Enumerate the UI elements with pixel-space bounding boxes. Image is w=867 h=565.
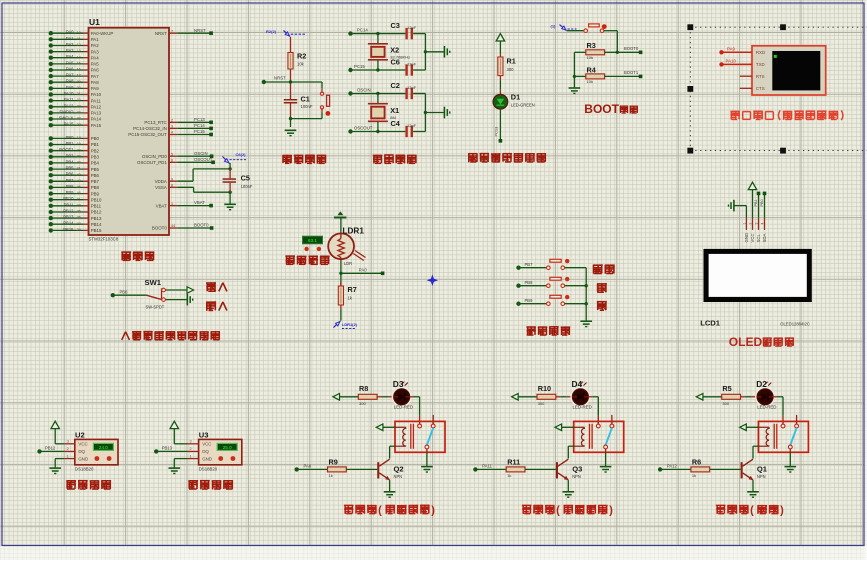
- svg-text:10k: 10k: [297, 61, 305, 66]
- svg-text:PA5: PA5: [91, 62, 100, 67]
- svg-text:D3: D3: [393, 379, 404, 389]
- svg-text:33: 33: [77, 104, 81, 108]
- svg-text:3: 3: [755, 223, 759, 225]
- svg-text:DS18B20: DS18B20: [75, 466, 94, 471]
- svg-text:BOOT0: BOOT0: [624, 46, 639, 51]
- svg-text:PA15: PA15: [64, 122, 75, 127]
- svg-text:40: 40: [77, 161, 81, 165]
- svg-text:12pF: 12pF: [407, 25, 417, 30]
- svg-text:PA9: PA9: [66, 85, 74, 90]
- svg-text:PC14-OSC32_IN: PC14-OSC32_IN: [133, 126, 167, 131]
- svg-text:300: 300: [507, 67, 515, 72]
- svg-text:1k: 1k: [507, 473, 511, 478]
- svg-text:U1: U1: [89, 17, 100, 27]
- svg-text:NRST: NRST: [194, 28, 206, 33]
- svg-text:NPN: NPN: [572, 474, 581, 479]
- svg-text:PC15: PC15: [354, 64, 365, 69]
- svg-text:U3: U3: [199, 431, 209, 440]
- svg-text:PB0: PB0: [91, 136, 100, 141]
- svg-text:1k: 1k: [692, 473, 696, 478]
- svg-text:OSCIN: OSCIN: [194, 151, 208, 156]
- svg-text:SW1: SW1: [145, 278, 162, 287]
- svg-text:1: 1: [67, 454, 69, 458]
- svg-text:OSCOUT_PD1: OSCOUT_PD1: [137, 160, 167, 165]
- svg-text:PA3: PA3: [91, 49, 100, 54]
- svg-text:300: 300: [538, 401, 545, 406]
- svg-text:VSSA: VSSA: [155, 185, 167, 190]
- svg-text:R5: R5: [722, 384, 731, 393]
- svg-text:GND: GND: [744, 233, 749, 243]
- svg-text:R4: R4: [587, 65, 597, 74]
- svg-text:3: 3: [171, 125, 173, 129]
- svg-text:PB3: PB3: [66, 153, 75, 158]
- svg-text:GND: GND: [78, 456, 88, 461]
- svg-text:R8: R8: [359, 384, 368, 393]
- svg-text:R2: R2: [297, 52, 306, 61]
- svg-text:PC13: PC13: [194, 117, 205, 122]
- svg-text:1: 1: [190, 454, 192, 458]
- svg-text:PB12: PB12: [91, 210, 102, 215]
- svg-text:R2(2): R2(2): [266, 29, 277, 34]
- svg-text:PA0-WKUP: PA0-WKUP: [91, 31, 114, 36]
- svg-text:PB2: PB2: [91, 148, 100, 153]
- svg-text:PC14: PC14: [194, 123, 205, 128]
- svg-text:24.0: 24.0: [99, 445, 108, 450]
- svg-text:VCC: VCC: [78, 442, 87, 447]
- svg-text:31: 31: [77, 92, 81, 96]
- svg-text:PB0: PB0: [66, 135, 75, 140]
- svg-text:R3: R3: [587, 41, 596, 50]
- svg-text:): ): [780, 505, 784, 517]
- svg-text:OSCIN_PD0: OSCIN_PD0: [142, 154, 167, 159]
- svg-text:8: 8: [171, 184, 173, 188]
- svg-text:100nF: 100nF: [241, 184, 253, 189]
- svg-text:PA12: PA12: [667, 464, 678, 469]
- svg-text:2: 2: [171, 119, 173, 123]
- svg-text:SWCLK: SWCLK: [59, 116, 74, 121]
- svg-text:PC13: PC13: [493, 127, 498, 137]
- svg-text:SWDIO: SWDIO: [59, 109, 74, 114]
- svg-text:LDR: LDR: [344, 261, 352, 266]
- svg-text:PB6: PB6: [120, 289, 129, 294]
- svg-text:300: 300: [722, 401, 729, 406]
- svg-text:43: 43: [77, 179, 81, 183]
- svg-text:): ): [609, 505, 613, 517]
- svg-text:PA1: PA1: [91, 37, 100, 42]
- svg-text:27: 27: [77, 222, 81, 226]
- svg-text:SDA: SDA: [762, 234, 767, 243]
- svg-text:16: 16: [77, 68, 81, 72]
- svg-text:PA7: PA7: [66, 73, 74, 78]
- svg-text:PB5: PB5: [66, 166, 75, 171]
- svg-text:PB6: PB6: [91, 173, 100, 178]
- svg-text:25.0: 25.0: [223, 445, 232, 450]
- svg-text:VCC: VCC: [202, 442, 211, 447]
- svg-text:VDDA: VDDA: [155, 179, 167, 184]
- svg-text:44: 44: [171, 224, 175, 228]
- svg-text:PB5: PB5: [91, 167, 100, 172]
- svg-text:): ): [431, 505, 435, 517]
- svg-text:PA4: PA4: [66, 54, 74, 59]
- svg-text:NRST: NRST: [155, 31, 167, 36]
- svg-text:PB4: PB4: [66, 159, 75, 164]
- svg-text:PA12: PA12: [64, 103, 75, 108]
- svg-text:NRST: NRST: [274, 76, 286, 81]
- svg-text:PB10: PB10: [63, 196, 74, 201]
- svg-text:17: 17: [77, 74, 81, 78]
- svg-text:PB8: PB8: [66, 184, 75, 189]
- svg-text:PA0: PA0: [66, 30, 74, 35]
- svg-text:X1: X1: [390, 106, 399, 115]
- svg-text:PB13: PB13: [63, 215, 74, 220]
- svg-text:LCD1: LCD1: [700, 319, 721, 328]
- svg-text:BOOT0: BOOT0: [194, 223, 209, 228]
- svg-text:PA0: PA0: [359, 267, 367, 272]
- svg-text:OSCIN: OSCIN: [357, 87, 371, 92]
- svg-text:PA10: PA10: [726, 58, 737, 63]
- svg-text:PA10: PA10: [64, 91, 75, 96]
- svg-text:(: (: [750, 505, 754, 517]
- svg-text:BOOT1: BOOT1: [624, 70, 639, 75]
- svg-text:NPN: NPN: [394, 474, 403, 479]
- svg-text:PA11: PA11: [482, 464, 492, 469]
- svg-text:Q1: Q1: [757, 465, 768, 474]
- svg-text:19: 19: [77, 142, 81, 146]
- svg-text:PA14: PA14: [91, 117, 102, 122]
- svg-text:PA8: PA8: [66, 79, 74, 84]
- svg-text:SCL: SCL: [756, 234, 761, 243]
- svg-text:PC13_RTC: PC13_RTC: [144, 120, 166, 125]
- svg-text:12pF: 12pF: [407, 61, 417, 66]
- svg-text:PB12: PB12: [63, 209, 74, 214]
- svg-text:PB9: PB9: [525, 298, 534, 303]
- svg-text:PA11: PA11: [64, 97, 74, 102]
- svg-text:45: 45: [77, 185, 81, 189]
- svg-text:21: 21: [77, 197, 81, 201]
- svg-text:PA7: PA7: [91, 74, 100, 79]
- svg-text:1k: 1k: [329, 473, 333, 478]
- svg-text:RTS: RTS: [756, 74, 765, 79]
- svg-text:PB7: PB7: [91, 179, 100, 184]
- svg-text:D4: D4: [572, 379, 583, 389]
- svg-text:1: 1: [171, 202, 173, 206]
- svg-text:BOOT1: BOOT1: [59, 147, 74, 152]
- svg-text:OLED: OLED: [729, 335, 763, 349]
- svg-text:12: 12: [77, 43, 81, 47]
- svg-text:LED-RED: LED-RED: [573, 404, 592, 409]
- svg-text:D1: D1: [511, 93, 520, 102]
- svg-text:10k: 10k: [587, 55, 593, 60]
- svg-text:TXD: TXD: [756, 62, 765, 67]
- svg-text:LED-RED: LED-RED: [394, 404, 413, 409]
- svg-text:R6: R6: [692, 457, 701, 466]
- svg-text:PA4: PA4: [91, 55, 100, 60]
- svg-text:PA1: PA1: [66, 36, 74, 41]
- svg-text:46: 46: [77, 191, 81, 195]
- svg-text:PA2: PA2: [91, 43, 100, 48]
- svg-text:VCC: VCC: [750, 233, 755, 242]
- svg-text:25: 25: [77, 210, 81, 214]
- svg-text:14: 14: [77, 55, 81, 59]
- svg-text:34: 34: [77, 111, 81, 115]
- svg-text:9: 9: [171, 177, 173, 181]
- svg-text:4: 4: [761, 223, 765, 225]
- svg-text:6: 6: [171, 159, 173, 163]
- svg-text:12pF: 12pF: [407, 85, 417, 90]
- svg-text:PC14: PC14: [357, 27, 368, 32]
- svg-text:100nF: 100nF: [301, 104, 313, 109]
- svg-text:32: 32: [77, 98, 81, 102]
- svg-text:39: 39: [77, 154, 81, 158]
- svg-text:15: 15: [77, 62, 81, 66]
- svg-text:C6(2): C6(2): [236, 152, 247, 157]
- svg-text:LED-RED: LED-RED: [757, 404, 776, 409]
- svg-text:PB15: PB15: [63, 227, 74, 232]
- svg-text:PB11: PB11: [91, 204, 102, 209]
- svg-text:PB3: PB3: [91, 155, 100, 160]
- svg-text:7: 7: [171, 29, 173, 33]
- svg-text:PA8: PA8: [304, 464, 312, 469]
- svg-text:C3: C3: [391, 21, 400, 30]
- svg-text:PA6: PA6: [66, 67, 74, 72]
- svg-text:PA2: PA2: [66, 42, 74, 47]
- svg-text:SW-SPDT: SW-SPDT: [146, 304, 165, 309]
- svg-text:2: 2: [749, 223, 753, 225]
- svg-text:42: 42: [77, 173, 81, 177]
- svg-text:PA8: PA8: [91, 80, 100, 85]
- svg-text:PB13: PB13: [162, 446, 173, 451]
- svg-text:30: 30: [77, 86, 81, 90]
- svg-text:R9: R9: [329, 457, 338, 466]
- svg-text:PC15-OSC32_OUT: PC15-OSC32_OUT: [128, 132, 167, 137]
- svg-text:PA10: PA10: [91, 92, 102, 97]
- svg-text:R7: R7: [348, 285, 357, 294]
- svg-text:LED-GREEN: LED-GREEN: [511, 102, 535, 107]
- svg-text:PB1: PB1: [754, 199, 758, 206]
- svg-text:63.1: 63.1: [308, 238, 317, 243]
- svg-text:28: 28: [77, 228, 81, 232]
- svg-text:2: 2: [190, 447, 192, 451]
- svg-text:C1: C1: [301, 95, 310, 104]
- svg-text:LDR1(2): LDR1(2): [342, 322, 358, 327]
- svg-text:PB4: PB4: [91, 161, 100, 166]
- svg-text:PB8: PB8: [525, 280, 534, 285]
- svg-text:1: 1: [743, 223, 747, 225]
- svg-text:3: 3: [67, 440, 69, 444]
- svg-text:26: 26: [77, 216, 81, 220]
- svg-text:(: (: [556, 505, 560, 517]
- svg-text:OSCOUT: OSCOUT: [194, 157, 213, 162]
- svg-text:PA12: PA12: [91, 105, 102, 110]
- svg-text:4: 4: [171, 131, 173, 135]
- svg-text:X2: X2: [390, 45, 399, 54]
- svg-text:18: 18: [77, 136, 81, 140]
- svg-text:DQ: DQ: [202, 449, 209, 454]
- svg-text:OLED12864I2C: OLED12864I2C: [780, 322, 810, 327]
- svg-text:PA15: PA15: [91, 123, 102, 128]
- svg-text:PB12: PB12: [45, 446, 56, 451]
- svg-text:U2: U2: [75, 431, 85, 440]
- svg-text:37: 37: [77, 117, 81, 121]
- svg-text:STM32F103C8: STM32F103C8: [89, 237, 119, 242]
- svg-text:3: 3: [190, 440, 192, 444]
- svg-text:PA9: PA9: [727, 46, 736, 51]
- svg-text:13: 13: [77, 49, 81, 53]
- svg-text:PB9: PB9: [91, 191, 100, 196]
- svg-text:C5: C5: [241, 174, 250, 183]
- svg-text:Q3: Q3: [572, 465, 582, 474]
- svg-text:C6: C6: [391, 58, 400, 67]
- svg-text:PA13: PA13: [91, 111, 102, 116]
- svg-text:C4: C4: [391, 119, 401, 128]
- svg-text:12pF: 12pF: [407, 123, 417, 128]
- svg-text:PB11: PB11: [64, 202, 75, 207]
- svg-text:PA6: PA6: [91, 68, 100, 73]
- svg-text:PB7: PB7: [66, 178, 75, 183]
- svg-text:RXD: RXD: [756, 50, 765, 55]
- svg-text:41: 41: [77, 167, 81, 171]
- svg-text:20: 20: [77, 148, 81, 152]
- svg-text:PB1: PB1: [66, 141, 75, 146]
- svg-text:R10: R10: [538, 384, 551, 393]
- svg-text:PB14: PB14: [63, 221, 74, 226]
- svg-text:NPN: NPN: [757, 474, 766, 479]
- svg-text:DQ: DQ: [78, 449, 85, 454]
- svg-text:PA9: PA9: [91, 86, 100, 91]
- svg-text:PB0: PB0: [760, 199, 764, 206]
- svg-text:BOOT: BOOT: [584, 102, 619, 116]
- svg-text:2: 2: [67, 447, 69, 451]
- svg-text:300: 300: [359, 401, 366, 406]
- svg-text:BOOT0: BOOT0: [152, 226, 167, 231]
- svg-text:PB9: PB9: [66, 190, 75, 195]
- svg-text:PB15: PB15: [91, 228, 102, 233]
- svg-text:(1): (1): [551, 24, 557, 29]
- svg-text:PB10: PB10: [91, 197, 102, 202]
- svg-text:PA3: PA3: [66, 48, 74, 53]
- svg-text:PA11: PA11: [91, 98, 102, 103]
- svg-text:LDR1: LDR1: [343, 226, 365, 235]
- svg-text:PC15: PC15: [194, 129, 205, 134]
- svg-text:PB14: PB14: [91, 222, 102, 227]
- svg-text:VBAT: VBAT: [156, 203, 167, 208]
- svg-text:(: (: [378, 505, 382, 517]
- svg-text:PB7: PB7: [525, 262, 534, 267]
- svg-text:R11: R11: [507, 457, 520, 466]
- svg-text:PB6: PB6: [66, 172, 75, 177]
- svg-text:C2: C2: [391, 81, 400, 90]
- svg-text:D2: D2: [756, 379, 767, 389]
- svg-text:PB1: PB1: [91, 142, 100, 147]
- svg-text:VBAT: VBAT: [194, 200, 205, 205]
- svg-text:CTS: CTS: [756, 86, 765, 91]
- svg-text:38: 38: [77, 123, 81, 127]
- svg-text:29: 29: [77, 80, 81, 84]
- svg-text:DS18B20: DS18B20: [199, 466, 218, 471]
- svg-text:PB8: PB8: [91, 185, 100, 190]
- svg-text:10k: 10k: [587, 79, 593, 84]
- svg-text:R1: R1: [507, 57, 516, 66]
- svg-text:5: 5: [171, 152, 173, 156]
- svg-text:GND: GND: [202, 456, 212, 461]
- svg-text:OSCOUT: OSCOUT: [354, 125, 373, 130]
- svg-text:PB13: PB13: [91, 216, 102, 221]
- svg-text:PA5: PA5: [66, 60, 74, 65]
- svg-text:Q2: Q2: [394, 465, 404, 474]
- svg-text:22: 22: [77, 203, 81, 207]
- svg-text:11: 11: [77, 37, 81, 41]
- svg-text:10: 10: [77, 31, 81, 35]
